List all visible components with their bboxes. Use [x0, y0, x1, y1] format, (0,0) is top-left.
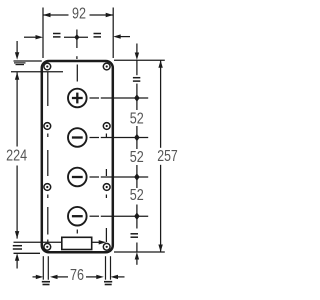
screw hole mid-left lower	[44, 184, 51, 191]
chain equals top	[133, 78, 140, 81]
right extension line bottom	[114, 251, 165, 253]
chain node diamond button1	[134, 94, 140, 102]
svg-text:92: 92	[72, 5, 86, 22]
dim 92 extension line left	[42, 8, 44, 59]
svg-text:52: 52	[130, 187, 144, 204]
centering row right arrow	[113, 34, 130, 38]
screw hole mid-right lower	[103, 184, 110, 191]
left top reference plane with hatching	[14, 61, 42, 65]
buttons vertical centerline	[76, 65, 78, 234]
dim 92 line and arrows	[43, 13, 113, 17]
svg-text:224: 224	[6, 148, 27, 165]
button 4 leader line	[90, 215, 149, 217]
label window	[62, 237, 92, 249]
dim 76 left outside arrow	[33, 275, 44, 279]
mounting box right edge (dash-dot hidden line)	[105, 134, 107, 243]
button 3 (-)	[68, 168, 87, 187]
bottom-left outside arrow pointing up	[15, 253, 19, 268]
screw hole top-left	[44, 63, 51, 70]
dim 76 left hatch	[42, 282, 50, 285]
dim 76 right outside arrow	[111, 275, 125, 279]
left top outside arrow pointing down	[15, 41, 19, 60]
button 1 (+)	[68, 89, 87, 108]
centering row left equals	[53, 34, 61, 37]
dim 92 extension line right	[112, 8, 114, 59]
dim 257 line and arrows	[158, 60, 162, 252]
svg-text:257: 257	[157, 148, 178, 165]
button 3 leader line	[90, 176, 149, 178]
centering row right equals	[94, 34, 102, 37]
screw hole bottom-right	[103, 243, 110, 250]
svg-text:76: 76	[70, 267, 84, 284]
right extension line top	[114, 59, 165, 61]
chain equals bottom	[131, 234, 139, 237]
mounting box top edge	[11, 71, 63, 73]
button 4 (-)	[68, 207, 87, 226]
svg-text:52: 52	[130, 111, 144, 128]
button 2 (-)	[68, 128, 87, 147]
dim 76 extension pair right	[106, 256, 111, 280]
mounting box bottom edge	[14, 240, 107, 244]
dim 76 extension pair left	[43, 256, 48, 280]
bottom-left equals	[13, 246, 22, 249]
dim 224 line and arrows	[15, 72, 19, 238]
centering row center mark	[64, 30, 88, 60]
chain bottom outside arrow pointing up	[135, 252, 139, 265]
plate bottom extension left	[14, 252, 41, 254]
chain node diamond button3	[134, 173, 140, 181]
dim 76 left inner arrow	[50, 275, 68, 279]
screw hole mid-right upper	[103, 123, 110, 130]
chain node diamond button4	[134, 212, 140, 220]
button 1 leader line	[90, 97, 149, 99]
centering row left arrow	[24, 35, 43, 39]
chain dim top outside arrow pointing down	[135, 44, 139, 61]
svg-text:52: 52	[130, 149, 144, 166]
plate outline	[42, 61, 113, 252]
dim 76 right inner arrow	[86, 275, 104, 279]
mounting box left edge (dash-dot hidden line)	[47, 72, 49, 242]
button 2 leader line	[90, 137, 149, 139]
screw hole bottom-left	[44, 243, 51, 250]
chain dim line x137	[136, 60, 138, 252]
dim 76 right hatch	[104, 282, 112, 285]
screw hole top-right	[103, 63, 110, 70]
chain node diamond button2	[134, 134, 140, 142]
screw hole mid-left upper	[44, 123, 51, 130]
